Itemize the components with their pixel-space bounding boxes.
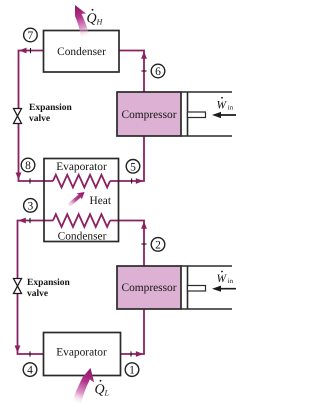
svg-text:in: in: [228, 104, 234, 111]
svg-text:Q: Q: [87, 11, 97, 26]
compressor A box border: [117, 92, 181, 136]
svg-text:Evaporator: Evaporator: [56, 346, 107, 358]
svg-text:in: in: [228, 278, 234, 285]
svg-text:Expansion: Expansion: [27, 278, 70, 288]
heat exchanger box fill (middle): [44, 159, 119, 242]
flow arrow right before corner at node 5: [136, 178, 144, 184]
heat transfer arrow (gradient): [66, 189, 87, 209]
wire: condenser B outlet to expansion valve B (state 3 line): [18, 221, 54, 279]
label W_in A: [217, 97, 234, 112]
flow arrow up below corner at node 6: [141, 51, 147, 59]
compressor B cylinder walls: [181, 266, 232, 309]
compressor B piston face: [187, 267, 189, 309]
svg-text:Expansion: Expansion: [29, 103, 72, 113]
label Q_H: [87, 9, 104, 27]
flow arrow right before corner at node 1: [136, 351, 144, 357]
node 1 circle: [125, 363, 139, 377]
wire: evaporator A outlet to compressor A suction (state 5 line): [110, 136, 144, 181]
node 4 circle: [23, 363, 37, 377]
heat rejection arrow Q_H (gradient): [71, 3, 93, 38]
flow arrow up below corner at node 2: [141, 221, 147, 229]
svg-text:Condenser: Condenser: [58, 230, 107, 242]
wire: condenser A outlet to expansion valve A (state 7 line): [19, 51, 44, 109]
svg-text:6: 6: [155, 66, 161, 78]
state tick node 1: [130, 351, 132, 356]
svg-text:Q: Q: [95, 382, 105, 397]
wire: evaporator B outlet to compressor B suction (state 1 line): [121, 309, 145, 354]
flow arrow left at node 3 corner: [18, 218, 26, 224]
compressor B box border: [117, 266, 181, 309]
condenser A box fill (top): [44, 31, 120, 73]
condenser B coil (zigzag): [53, 214, 110, 227]
expansion valve A label: [29, 103, 72, 124]
heat exchanger box border (middle): [44, 159, 119, 242]
condenser A box border: [44, 31, 120, 73]
label Q_L: [95, 380, 110, 398]
wire: compressor A discharge to condenser A (state 6 line): [119, 51, 144, 93]
svg-text:2: 2: [155, 239, 161, 251]
svg-text:Compressor: Compressor: [121, 282, 176, 294]
state tick node 3: [29, 218, 31, 223]
wire: condenser B right stub to compressor B discharge riser (state 2 line): [110, 221, 144, 267]
svg-text:valve: valve: [27, 289, 48, 299]
expansion valve B label: [27, 278, 70, 299]
svg-text:L: L: [104, 389, 110, 398]
expansion valve B: [14, 279, 22, 294]
node 6 circle: [151, 64, 165, 78]
node 5 circle: [126, 160, 140, 174]
svg-text:Compressor: Compressor: [121, 109, 176, 121]
compressor A piston rod: [188, 112, 206, 118]
flow arrow down above corner at node 8: [16, 173, 22, 181]
compressor B box fill: [117, 266, 181, 309]
compressor A cylinder walls: [181, 92, 232, 136]
svg-text:Heat: Heat: [90, 195, 112, 207]
state tick node 6: [141, 70, 146, 72]
svg-text:8: 8: [25, 160, 31, 172]
state tick node 2: [141, 243, 146, 245]
compressor B piston rod: [188, 286, 206, 292]
svg-text:Condenser: Condenser: [57, 46, 106, 58]
wire: expansion valve B to evaporator B inlet (state 4 line): [18, 294, 44, 355]
node 3 circle: [24, 199, 38, 213]
state tick node 5: [131, 178, 133, 183]
state tick node 4: [29, 351, 31, 356]
heat absorption arrow Q_L (gradient): [72, 366, 98, 405]
expansion valve A: [14, 109, 22, 124]
flow arrow left at node 7 corner: [19, 48, 27, 54]
svg-text:5: 5: [130, 161, 136, 173]
compressor A box fill: [117, 92, 181, 136]
node 8 circle: [21, 158, 35, 172]
svg-text:W: W: [217, 273, 228, 285]
svg-text:Evaporator: Evaporator: [56, 161, 107, 173]
state tick node 7: [30, 48, 32, 53]
svg-text:W: W: [217, 100, 228, 112]
svg-text:valve: valve: [29, 114, 50, 124]
wire: expansion valve A to evaporator A inlet (state 8 line): [19, 124, 54, 182]
work input arrow W_in A: [219, 114, 236, 116]
flow arrow down above corner at node 4: [15, 346, 21, 354]
node 7 circle: [24, 28, 38, 42]
svg-text:7: 7: [28, 30, 34, 42]
evaporator A coil (zigzag): [53, 175, 110, 188]
evaporator B box border (bottom): [44, 333, 121, 376]
svg-text:3: 3: [28, 200, 34, 212]
label W_in B: [217, 271, 234, 286]
evaporator B box fill (bottom): [44, 333, 121, 376]
svg-text:4: 4: [27, 365, 33, 377]
compressor A piston face: [187, 93, 189, 136]
node 2 circle: [151, 238, 165, 252]
state tick node 8: [29, 178, 31, 183]
work input arrow W_in B: [219, 288, 236, 290]
svg-text:1: 1: [129, 365, 135, 377]
